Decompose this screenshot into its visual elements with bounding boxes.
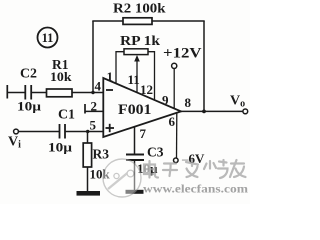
svg-text:Vi: Vi bbox=[8, 135, 21, 151]
input terminal Vi bbox=[14, 129, 19, 134]
svg-text:9: 9 bbox=[162, 93, 169, 108]
resistor R2 bbox=[123, 18, 152, 25]
svg-text:10k: 10k bbox=[50, 69, 72, 84]
wire: feedback loop left vertical (node4 up to R2) bbox=[92, 21, 94, 93]
pin 2 stub capacitor bar bbox=[84, 104, 86, 114]
input terminal bar (left of C2) bbox=[6, 85, 8, 99]
wire: C1 to pin 5 bbox=[65, 131, 103, 133]
watermark chinese characters bbox=[144, 160, 246, 179]
-6V terminal bbox=[174, 158, 179, 163]
+12V terminal bbox=[172, 63, 177, 68]
node: junction at pin 4 bbox=[91, 91, 94, 94]
svg-text:10µ: 10µ bbox=[17, 99, 42, 114]
svg-text:RP 1k: RP 1k bbox=[120, 34, 160, 49]
op-amp inverting input minus sign bbox=[106, 89, 113, 91]
wire: Vi to C1 bbox=[18, 131, 59, 133]
capacitor C1 bbox=[60, 124, 66, 139]
svg-text:11: 11 bbox=[42, 31, 54, 45]
svg-text:6: 6 bbox=[169, 114, 176, 129]
svg-text:10µ: 10µ bbox=[48, 140, 73, 155]
svg-text:12: 12 bbox=[140, 82, 153, 97]
resistor R3 bbox=[83, 143, 91, 167]
wire: RP left terminal to pin 1 bbox=[116, 52, 124, 84]
wire: pin 2 stub bbox=[85, 110, 103, 112]
op-amp non-inverting input plus sign bbox=[106, 124, 115, 132]
wire: output from pin 8 bbox=[181, 110, 243, 112]
capacitor C2 bbox=[25, 85, 31, 100]
wire: feedback loop top horizontal bbox=[92, 20, 204, 22]
wire: +12V to pin 9 bbox=[173, 69, 175, 109]
potentiometer RP bbox=[124, 49, 148, 93]
wire: feedback loop right vertical (down to output) bbox=[203, 21, 205, 112]
wire: RP right terminal to pin 12 bbox=[148, 52, 155, 100]
svg-text:Vo: Vo bbox=[230, 94, 245, 110]
svg-text:R3: R3 bbox=[93, 147, 110, 162]
figure number badge (11) bbox=[38, 28, 58, 48]
svg-text:C3: C3 bbox=[147, 145, 164, 160]
wire: R1 to pin 4 bbox=[72, 92, 103, 94]
op-amp U1 triangle bbox=[103, 78, 181, 137]
svg-text:R2 100k: R2 100k bbox=[113, 2, 166, 17]
svg-text:F001: F001 bbox=[118, 102, 152, 118]
wire: pin 7 down to C3 bbox=[134, 127, 136, 154]
svg-text:11: 11 bbox=[128, 72, 140, 87]
svg-text:+12V: +12V bbox=[163, 46, 202, 62]
watermark logo circle bbox=[103, 159, 141, 197]
svg-text:7: 7 bbox=[140, 126, 147, 141]
wire: R3 to ground bbox=[87, 167, 89, 192]
output terminal Vo bbox=[243, 109, 248, 114]
wire: node 5 down to R3 bbox=[87, 132, 89, 144]
wire: pin 6 down to -6V bbox=[176, 113, 178, 159]
node: junction at pin 5 bbox=[86, 130, 89, 133]
ground (C3) bbox=[126, 190, 144, 194]
wire: C3 to ground bbox=[134, 160, 136, 191]
svg-text:8: 8 bbox=[185, 95, 192, 110]
wire: C2 to R1 bbox=[31, 92, 46, 94]
wire: input bar to C2 bbox=[7, 92, 24, 94]
svg-text:1: 1 bbox=[107, 69, 114, 84]
svg-text:C1: C1 bbox=[58, 107, 75, 122]
resistor R1 bbox=[47, 89, 73, 97]
svg-text:4: 4 bbox=[95, 79, 102, 94]
node: output junction bbox=[202, 110, 206, 114]
svg-text:C2: C2 bbox=[20, 66, 37, 81]
capacitor C3 bbox=[126, 155, 144, 161]
svg-text:5: 5 bbox=[90, 118, 97, 133]
svg-text:www.elecfans.com: www.elecfans.com bbox=[143, 184, 248, 196]
ground (R3) bbox=[77, 191, 101, 196]
